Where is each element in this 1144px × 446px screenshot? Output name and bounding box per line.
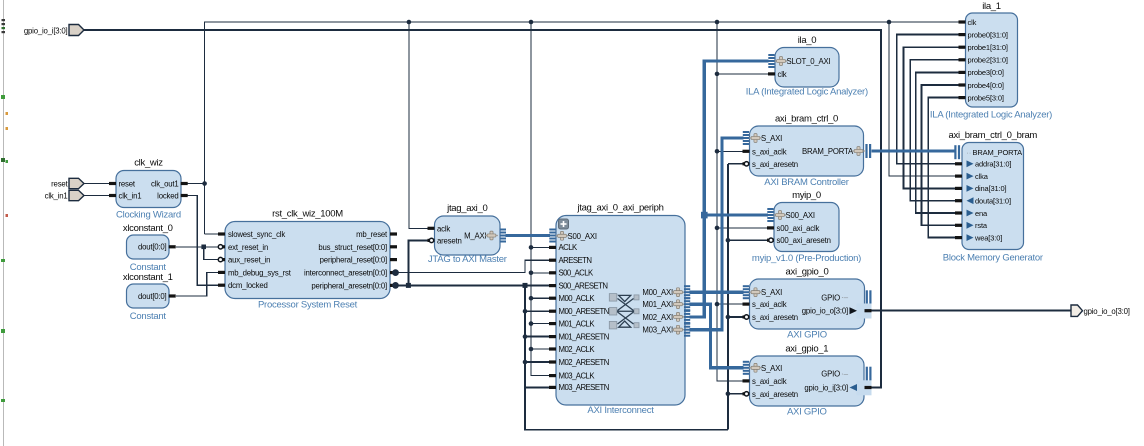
- external input port clk_in1: [45, 190, 109, 200]
- external input port gpio_io_i[3:0]: [24, 25, 84, 36]
- pin M00_ACLK of interconnect: [549, 294, 595, 303]
- svg-text:Constant: Constant: [130, 311, 167, 322]
- svg-text:Block Memory Generator: Block Memory Generator: [943, 253, 1043, 264]
- interface pin GPIO of axi_gpio_1: [821, 367, 871, 381]
- svg-text:slowest_sync_clk: slowest_sync_clk: [228, 230, 285, 239]
- IP block ila_1 body: [966, 13, 1018, 107]
- wire probe4 net: ila_1 probe4 to bram rsta: [921, 85, 958, 225]
- svg-text:M01_ARESETN: M01_ARESETN: [559, 332, 609, 341]
- inverter donut ext_reset_in: [218, 245, 222, 249]
- svg-text:locked: locked: [157, 191, 178, 200]
- expand button of interconnect: [559, 219, 569, 229]
- bus wire M_AXI: jtag_axi_0 to interconnect S00_AXI: [506, 234, 551, 237]
- junction dots interconnect clock trunk: [529, 245, 534, 351]
- svg-text:S_AXI: S_AXI: [761, 364, 782, 373]
- svg-text:myip_0: myip_0: [792, 190, 821, 201]
- wire probe2 net: ila_1 probe2 to bram douta: [910, 60, 958, 201]
- pin clk_in1 of clk_wiz: [109, 192, 141, 201]
- interface pin S_AXI of axi_gpio_0: [743, 285, 782, 299]
- svg-text:aresetn: aresetn: [437, 236, 462, 245]
- wire clk net: drop to rst slowest_sync_clk: [205, 233, 218, 235]
- pin reset of clk_wiz: [109, 180, 136, 189]
- svg-text:GPIO: GPIO: [821, 370, 840, 379]
- junction dots right column aresetn trunk: [726, 238, 731, 396]
- svg-text:probe4[0:0]: probe4[0:0]: [968, 81, 1004, 90]
- pin gpio_io_i[3:0] of axi_gpio_1: [804, 380, 871, 395]
- svg-text:ila_0: ila_0: [798, 35, 817, 46]
- bus wire M02_AXI to myip_0 and ila_0: [690, 61, 769, 317]
- svg-text:S_AXI: S_AXI: [761, 134, 782, 143]
- crossbar icon of interconnect: [609, 294, 639, 329]
- pin locked of clk_wiz: [157, 191, 188, 200]
- interface pin S_AXI of axi_gpio_1: [743, 361, 782, 375]
- pin gpio_io_o[3:0] of axi_gpio_0: [802, 304, 872, 319]
- pin interconnect_aresetn[0:0] of rst_clk_wiz_100M: [304, 269, 399, 278]
- svg-text:reset: reset: [51, 180, 68, 189]
- svg-text:probe0[31:0]: probe0[31:0]: [968, 30, 1008, 39]
- pin M03_ARESETN of interconnect: [549, 383, 609, 392]
- pin M03_ACLK of interconnect: [549, 371, 595, 380]
- external input port reset: [51, 178, 109, 188]
- svg-text:clk_wiz: clk_wiz: [134, 158, 163, 169]
- svg-text:JTAG to AXI Master: JTAG to AXI Master: [428, 254, 507, 265]
- svg-text:clka: clka: [975, 172, 989, 181]
- svg-text:gpio_io_i[3:0]: gpio_io_i[3:0]: [804, 384, 848, 393]
- svg-text:S00_ARESETN: S00_ARESETN: [559, 281, 608, 290]
- svg-text:aclk: aclk: [437, 224, 450, 233]
- pin S00_ACLK of interconnect: [549, 269, 594, 278]
- junction dots clk rail: [202, 20, 891, 186]
- pin addra[31:0] of blk_mem_gen: [955, 160, 1011, 169]
- pin probe4[0:0] of ila_1: [959, 81, 1004, 90]
- IP block xlconstant_0 body: [127, 235, 170, 259]
- pin ARESETN of interconnect: [549, 256, 591, 265]
- svg-text:s_axi_aclk: s_axi_aclk: [752, 300, 787, 309]
- svg-text:probe5[3:0]: probe5[3:0]: [968, 93, 1004, 102]
- svg-text:M00_AXI: M00_AXI: [642, 288, 673, 297]
- svg-text:M_AXI: M_AXI: [464, 232, 486, 241]
- junction dots right column clk trunk: [715, 72, 720, 307]
- svg-text:S00_ACLK: S00_ACLK: [559, 269, 595, 278]
- pin M02_ARESETN of interconnect: [549, 358, 609, 367]
- svg-text:gpio_io_i[3:0]: gpio_io_i[3:0]: [24, 26, 68, 35]
- pin aux_reset_in of rst_clk_wiz_100M: [218, 256, 270, 265]
- svg-text:gpio_io_o[3:0]: gpio_io_o[3:0]: [1084, 307, 1130, 316]
- pin bus_struct_reset[0:0] of rst_clk_wiz_100M: [318, 243, 397, 252]
- pin s_axi_aresetn of axi_gpio_0: [743, 313, 798, 322]
- pin dina[31:0] of blk_mem_gen: [955, 184, 1007, 193]
- svg-text:SLOT_0_AXI: SLOT_0_AXI: [787, 57, 831, 66]
- IP block axi_bram_ctrl_0 body: [750, 126, 864, 176]
- wire clk net: right column clock trunk: [717, 22, 769, 381]
- interface pin M03_AXI of interconnect: [642, 323, 690, 337]
- pin probe5[3:0] of ila_1: [959, 93, 1004, 102]
- pin probe1[31:0] of ila_1: [959, 43, 1008, 52]
- pin M00_ARESETN of interconnect: [549, 307, 609, 316]
- pin clk of ila_1: [959, 18, 977, 27]
- pin probe2[31:0] of ila_1: [959, 56, 1008, 65]
- IP block clk_wiz body: [116, 171, 181, 208]
- junction dot ext_reset branch: [201, 245, 206, 250]
- svg-text:s_axi_aresetn: s_axi_aresetn: [752, 313, 798, 322]
- wire gpio_io_i[3:0] bus from input port to axi_gpio_1: [84, 30, 881, 388]
- svg-text:clk: clk: [968, 18, 977, 27]
- svg-text:ARESETN: ARESETN: [559, 256, 592, 265]
- wire clk net: drop to jtag aclk: [409, 22, 428, 228]
- svg-text:·–: ·–: [841, 369, 849, 378]
- svg-text:s00_axi_aresetn: s00_axi_aresetn: [777, 236, 831, 245]
- interface pin S_AXI of axi_bram_ctrl_0: [743, 131, 782, 145]
- svg-text:axi_gpio_1: axi_gpio_1: [785, 344, 828, 355]
- svg-text:AXI GPIO: AXI GPIO: [787, 330, 827, 341]
- interface pin M_AXI of jtag_axi_0: [464, 229, 506, 243]
- svg-text:axi_gpio_0: axi_gpio_0: [786, 267, 829, 278]
- wire xlconstant_1 dout to mb_debug_sys_rst: [176, 272, 218, 296]
- svg-text:jtag_axi_0: jtag_axi_0: [446, 203, 487, 214]
- svg-text:ACLK: ACLK: [559, 243, 579, 252]
- svg-text:BRAM_PORTA: BRAM_PORTA: [802, 147, 854, 156]
- interface pin GPIO of axi_gpio_0: [821, 290, 871, 304]
- canvas left edge ruler line: [3, 0, 5, 446]
- svg-text:·–: ·–: [841, 293, 849, 302]
- svg-text:addra[31:0]: addra[31:0]: [975, 160, 1011, 169]
- svg-text:M00_ARESETN: M00_ARESETN: [559, 307, 609, 316]
- pin ena of blk_mem_gen: [955, 209, 988, 218]
- svg-text:xlconstant_0: xlconstant_0: [123, 223, 173, 234]
- IP block jtag_axi_0 body: [435, 216, 501, 255]
- svg-text:M03_ACLK: M03_ACLK: [559, 371, 596, 380]
- svg-text:xlconstant_1: xlconstant_1: [123, 272, 173, 283]
- svg-text:s00_axi_aclk: s00_axi_aclk: [777, 224, 820, 233]
- IP block axi_gpio_1 body: [750, 356, 865, 406]
- wire peripheral_aresetn net: right column aresetn trunk: [728, 164, 770, 430]
- svg-text:AXI Interconnect: AXI Interconnect: [587, 405, 654, 416]
- wire peripheral_aresetn net: left trunk and bottom run: [525, 285, 728, 429]
- svg-text:S_AXI: S_AXI: [761, 288, 782, 297]
- interface pin M01_AXI of interconnect: [642, 297, 690, 311]
- svg-text:clk_out1: clk_out1: [151, 179, 178, 188]
- wire probe1 net: ila_1 probe1 to bram dina: [904, 47, 959, 188]
- pin probe3[0:0] of ila_1: [959, 68, 1004, 77]
- svg-text:dcm_locked: dcm_locked: [228, 281, 268, 290]
- svg-text:mb_debug_sys_rst: mb_debug_sys_rst: [228, 268, 292, 277]
- pin s_axi_aclk of axi_gpio_1: [743, 377, 787, 386]
- wire gpio_io_o[3:0] bus from axi_gpio_0 to output port: [872, 310, 1072, 312]
- svg-text:clk_in1: clk_in1: [45, 192, 68, 201]
- wire clk net: interconnect clock trunk: [531, 22, 550, 376]
- interface pin S00_AXI of interconnect: [549, 229, 597, 243]
- wire probe3 net: ila_1 probe3 to bram ena: [916, 72, 959, 213]
- interface pin SLOT_0_AXI of ila_0: [768, 54, 830, 68]
- wire clk net: clk_out1 to top rail: [181, 22, 959, 234]
- svg-text:reset: reset: [119, 180, 136, 189]
- pin S00_ARESETN of interconnect: [549, 281, 608, 290]
- pin ACLK of interconnect: [549, 243, 578, 252]
- pin clka of blk_mem_gen: [955, 172, 989, 181]
- pin M01_ARESETN of interconnect: [549, 332, 609, 341]
- junction dots aresetn trunk: [406, 283, 528, 364]
- wire clk net: drop to bram clka: [889, 22, 956, 176]
- svg-text:GPIO: GPIO: [821, 293, 840, 302]
- pin clk_out1 of clk_wiz: [151, 179, 188, 188]
- pin s00_axi_aclk of myip_0: [767, 224, 819, 233]
- svg-text:M03_ARESETN: M03_ARESETN: [559, 383, 609, 392]
- pin s_axi_aclk of axi_gpio_0: [743, 300, 787, 309]
- pin M02_ACLK of interconnect: [549, 345, 595, 354]
- pin douta[31:0] of blk_mem_gen: [955, 197, 1011, 206]
- svg-text:interconnect_aresetn[0:0]: interconnect_aresetn[0:0]: [304, 269, 387, 278]
- svg-text:bus_struct_reset[0:0]: bus_struct_reset[0:0]: [318, 243, 387, 252]
- IP block axi_bram_ctrl_0_bram body: [962, 143, 1024, 250]
- pin slowest_sync_clk of rst_clk_wiz_100M: [218, 230, 285, 239]
- interface pin M00_AXI of interconnect: [642, 285, 690, 299]
- svg-text:S00_AXI: S00_AXI: [568, 232, 597, 241]
- IP block axi_gpio_0 body: [750, 279, 865, 329]
- svg-text:peripheral_reset[0:0]: peripheral_reset[0:0]: [320, 256, 387, 265]
- svg-text:AXI BRAM Controller: AXI BRAM Controller: [764, 177, 849, 188]
- wire interconnect_aresetn net to ARESETN: [397, 260, 550, 272]
- pin mb_reset of rst_clk_wiz_100M: [356, 230, 397, 239]
- wire probe5 net: ila_1 probe5 to bram wea: [928, 98, 958, 238]
- svg-text:wea[3:0]: wea[3:0]: [974, 233, 1002, 242]
- svg-text:probe2[31:0]: probe2[31:0]: [968, 56, 1008, 65]
- svg-text:probe1[31:0]: probe1[31:0]: [968, 43, 1008, 52]
- bus wire M03_AXI to axi_bram_ctrl_0 S_AXI: [690, 138, 744, 330]
- IP block rst_clk_wiz_100M body: [225, 222, 390, 299]
- svg-text:s_axi_aresetn: s_axi_aresetn: [752, 160, 798, 169]
- wire peripheral_aresetn net: main horizontal + jtag branch: [397, 240, 550, 285]
- bus junction at myip tap: [701, 212, 708, 219]
- pin dcm_locked of rst_clk_wiz_100M: [218, 281, 268, 290]
- svg-text:rst_clk_wiz_100M: rst_clk_wiz_100M: [272, 209, 343, 220]
- svg-text:ext_reset_in: ext_reset_in: [228, 243, 268, 252]
- IP block myip_0 body: [774, 203, 839, 252]
- svg-text:aux_reset_in: aux_reset_in: [228, 256, 270, 265]
- svg-text:s_axi_aclk: s_axi_aclk: [752, 147, 787, 156]
- svg-text:ena: ena: [975, 209, 988, 218]
- interface pin S00_AXI of myip_0: [767, 208, 815, 222]
- svg-text:ILA (Integrated Logic Analyzer: ILA (Integrated Logic Analyzer): [746, 87, 868, 98]
- svg-text:Processor System Reset: Processor System Reset: [258, 300, 358, 311]
- IP block jtag_axi_0_axi_periph body: [556, 216, 685, 406]
- svg-text:peripheral_aresetn[0:0]: peripheral_aresetn[0:0]: [311, 281, 387, 290]
- svg-text:axi_bram_ctrl_0_bram: axi_bram_ctrl_0_bram: [949, 130, 1038, 141]
- pin dout[0:0] of xlconstant_0: [138, 243, 176, 252]
- pin s_axi_aclk of axi_bram_ctrl_0: [743, 147, 787, 156]
- svg-text:douta[31:0]: douta[31:0]: [975, 197, 1011, 206]
- svg-text:M00_ACLK: M00_ACLK: [559, 294, 596, 303]
- pin rsta of blk_mem_gen: [955, 221, 988, 230]
- wire xlconstant_0 dout to ext_reset_in / aux_reset_in: [176, 247, 218, 260]
- pin M01_ACLK of interconnect: [549, 319, 595, 328]
- pin clk of ila_0: [768, 70, 787, 79]
- bus wire BRAM_PORTA: axi_bram_ctrl_0 to blk_mem_gen: [872, 149, 955, 152]
- svg-text:s_axi_aresetn: s_axi_aresetn: [752, 390, 798, 399]
- svg-text:AXI GPIO: AXI GPIO: [787, 407, 827, 418]
- svg-text:dina[31:0]: dina[31:0]: [975, 184, 1007, 193]
- pin aresetn of jtag_axi_0: [428, 236, 462, 245]
- svg-text:M01_AXI: M01_AXI: [642, 300, 673, 309]
- svg-text:M02_ACLK: M02_ACLK: [559, 345, 596, 354]
- svg-text:M03_AXI: M03_AXI: [642, 326, 673, 335]
- pin mb_debug_sys_rst of rst_clk_wiz_100M: [218, 268, 292, 277]
- svg-text:S00_AXI: S00_AXI: [786, 211, 815, 220]
- pin dout[0:0] of xlconstant_1: [138, 292, 176, 301]
- svg-text:clk_in1: clk_in1: [119, 192, 142, 201]
- ruler marks: [1, 19, 8, 402]
- pin s_axi_aresetn of axi_gpio_1: [743, 390, 798, 399]
- bus wire M00_AXI to axi_gpio_0 S_AXI: [690, 291, 744, 294]
- IP block ila_0 body: [775, 48, 839, 88]
- svg-text:s_axi_aclk: s_axi_aclk: [752, 377, 787, 386]
- svg-text:mb_reset: mb_reset: [356, 230, 388, 239]
- svg-text:dout[0:0]: dout[0:0]: [138, 292, 167, 301]
- pin peripheral_aresetn[0:0] of rst_clk_wiz_100M: [311, 281, 398, 290]
- svg-text:probe3[0:0]: probe3[0:0]: [968, 68, 1004, 77]
- wire probe0 net: ila_1 probe0 to bram addra: [897, 35, 959, 164]
- svg-text:jtag_axi_0_axi_periph: jtag_axi_0_axi_periph: [576, 203, 663, 214]
- svg-text:dout[0:0]: dout[0:0]: [138, 243, 167, 252]
- IP block xlconstant_1 body: [127, 284, 170, 308]
- inverter donut aux_reset_in: [218, 257, 222, 261]
- svg-text:myip_v1.0 (Pre-Production): myip_v1.0 (Pre-Production): [752, 253, 861, 264]
- pin aclk of jtag_axi_0: [428, 224, 451, 233]
- svg-text:ila_1: ila_1: [982, 1, 1001, 12]
- svg-text:··: ··: [967, 150, 972, 157]
- pin probe0[31:0] of ila_1: [959, 30, 1008, 39]
- pin s_axi_aresetn of axi_bram_ctrl_0: [743, 160, 798, 169]
- svg-text:axi_bram_ctrl_0: axi_bram_ctrl_0: [775, 114, 838, 125]
- svg-text:M02_AXI: M02_AXI: [642, 313, 673, 322]
- interface pin BRAM_PORTA of axi_bram_ctrl_0: [802, 144, 871, 158]
- svg-text:BRAM_PORTA: BRAM_PORTA: [973, 148, 1023, 157]
- svg-text:M01_ACLK: M01_ACLK: [559, 319, 596, 328]
- svg-text:gpio_io_o[3:0]: gpio_io_o[3:0]: [802, 307, 848, 316]
- wire locked to dcm_locked: [181, 196, 218, 286]
- external output port gpio_io_o[3:0]: [1071, 305, 1130, 316]
- svg-text:M02_ARESETN: M02_ARESETN: [559, 358, 609, 367]
- svg-text:rsta: rsta: [975, 221, 988, 230]
- pin s00_axi_aresetn of myip_0: [767, 236, 831, 245]
- interface pin BRAM_PORTA of blk_mem_gen: [954, 145, 1022, 159]
- bus wire M01_AXI to axi_gpio_1 S_AXI: [690, 304, 744, 368]
- svg-text:ILA (Integrated Logic Analyzer: ILA (Integrated Logic Analyzer): [930, 110, 1052, 121]
- pin ext_reset_in of rst_clk_wiz_100M: [218, 243, 268, 252]
- interface pin M02_AXI of interconnect: [642, 310, 690, 324]
- svg-text:Clocking Wizard: Clocking Wizard: [116, 210, 181, 221]
- pin wea[3:0] of blk_mem_gen: [955, 233, 1002, 242]
- svg-text:clk: clk: [778, 70, 787, 79]
- pin peripheral_reset[0:0] of rst_clk_wiz_100M: [320, 256, 397, 265]
